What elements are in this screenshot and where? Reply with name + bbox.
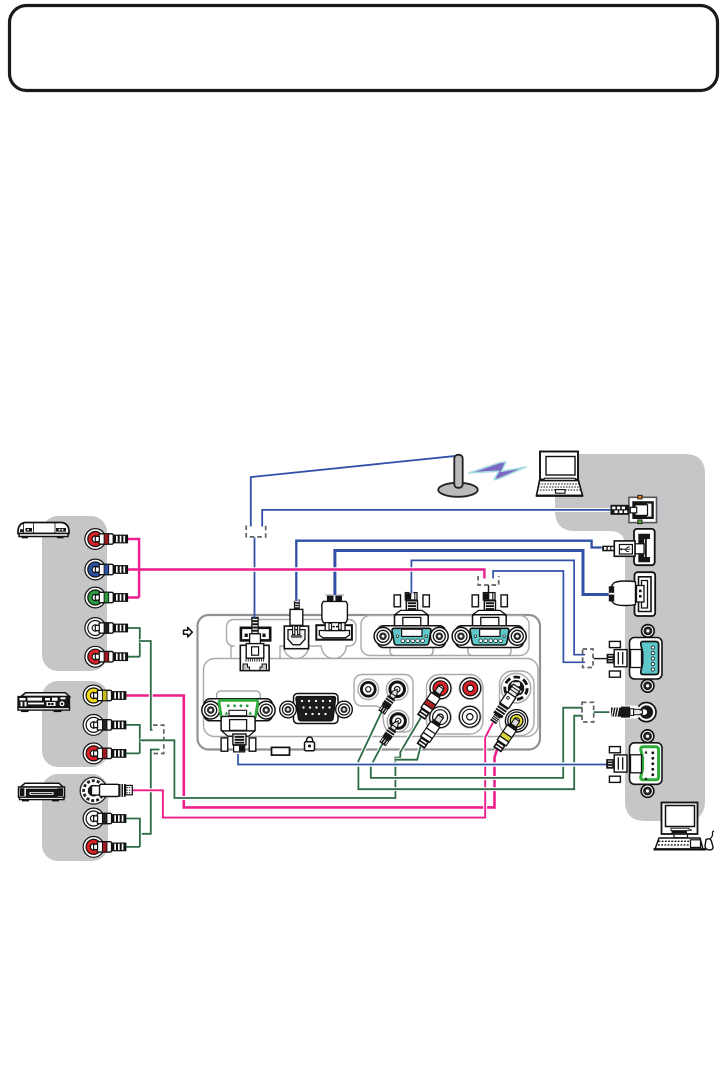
group1 plug Y	[95, 534, 128, 544]
right MONITOR cable connector (green d-sub)	[606, 730, 662, 797]
group1 plug L	[95, 623, 128, 633]
device video deck (group3)	[19, 783, 65, 801]
MONITOR OUT plug (below port)	[221, 716, 256, 751]
wire s-video cable pink	[131, 723, 493, 818]
group1 audio jack L (white)	[85, 618, 106, 639]
gray panel right column	[555, 454, 705, 821]
dashed box at right AUDIO plug	[582, 702, 594, 722]
group3 audio jack R (red)	[83, 837, 104, 858]
USB-B port	[284, 626, 308, 649]
wire audio box to plug green	[594, 711, 612, 713]
top instruction box	[10, 6, 718, 91]
AUDIO mini jack 3	[387, 710, 409, 732]
USB-B plug (cable above)	[290, 599, 303, 637]
AUDIO rca R2 red	[459, 677, 481, 699]
right COMPUTER cable connector (teal d-sub)	[607, 625, 662, 692]
AUDIO rca R1 red	[430, 677, 452, 699]
right USB connector	[634, 529, 655, 565]
group2 plug L	[94, 720, 127, 730]
VIDEO port (yellow rca)	[505, 710, 527, 732]
group3 audio jack L (white)	[83, 808, 104, 829]
device DVD player (group1)	[18, 523, 69, 539]
group1 plug Cb	[95, 564, 128, 574]
wire COMPUTER IN2 cable blue	[493, 571, 585, 662]
wire MONITOR OUT cable blue	[238, 754, 607, 765]
arrow marker left of panel	[184, 627, 193, 637]
dashed box at right COMPUTER connector	[583, 649, 593, 668]
AUDIO mini jack 2	[386, 679, 408, 701]
wire COMPUTER IN1 cable blue	[411, 560, 585, 654]
COMPUTER IN2 port with plug	[452, 593, 526, 656]
group1 plug R	[95, 652, 128, 662]
gray panel group3 (camcorder)	[42, 774, 108, 861]
wire group3 audio branch green	[140, 750, 160, 834]
wire group2 audio merge green	[127, 725, 140, 754]
device VCR (group2)	[18, 693, 70, 712]
wire USB cable blue	[296, 541, 602, 601]
wire choice box to LAN plug blue	[254, 538, 256, 619]
lower ports area outline	[204, 659, 539, 737]
group2 audio jack L (white)	[83, 715, 104, 736]
gray panel group2 (VCR)	[42, 681, 108, 767]
LAN plug (in port, cable above)	[246, 617, 264, 658]
group1 component jack Y (red)	[85, 529, 106, 550]
AUDIO rca W1 white	[429, 706, 451, 728]
mini jack group outline	[354, 675, 413, 733]
projector rear panel outline	[198, 615, 541, 750]
group2 plug video	[94, 690, 127, 700]
plug in VIDEO port	[493, 717, 522, 753]
wire stub to AUDIO-W1 green	[395, 747, 420, 760]
wire bracket to COMPUTER IN2 plug black	[488, 585, 490, 593]
wire group1 audio branch green	[140, 641, 153, 730]
wire component video cable pink	[128, 539, 485, 598]
group2 audio jack R (red)	[83, 743, 104, 764]
kensington lock icon	[305, 737, 315, 751]
plug in AUDIO mini jack3	[379, 719, 402, 747]
wireless adapter pole	[438, 455, 478, 497]
rca audio group outline	[427, 675, 484, 735]
dashed bracket at COMPUTER IN2 plug	[478, 576, 499, 585]
plug in AUDIO rca W1	[416, 713, 445, 749]
dashed choice box at LAN	[246, 526, 266, 537]
wire mini jack2 to right audio box green	[358, 712, 582, 789]
group2 plug R	[94, 748, 127, 758]
right HDMI connector	[635, 572, 656, 616]
right AUDIO port	[637, 703, 656, 722]
wire video cable (yellow->VIDEO) pink	[127, 696, 498, 808]
group1 component jack Cb (blue)	[85, 559, 106, 580]
right USB cable plug	[602, 541, 644, 556]
small label rect	[272, 747, 290, 755]
wire wireless adapter to LAN choice blue	[251, 456, 457, 527]
right AUDIO mini plug	[610, 706, 643, 719]
computer-in ports area outline	[361, 616, 529, 656]
gray panel group1 (component video device)	[42, 516, 107, 671]
plug in AUDIO rca R1	[416, 684, 445, 720]
wire mini jack3 to right audio box green	[371, 708, 583, 778]
wireless signal bolt	[469, 462, 526, 480]
wire group3 audio merge green	[127, 819, 140, 847]
S-VIDEO port	[501, 673, 531, 703]
wire LAN connector to choice box blue	[262, 510, 611, 527]
group3 plug R	[94, 842, 127, 852]
plug in S-VIDEO port	[489, 684, 522, 725]
wire group1 audio merge green	[128, 628, 140, 657]
group2 video jack (yellow)	[83, 685, 104, 706]
LAN port	[240, 628, 270, 671]
group3 s-video plug	[92, 784, 133, 797]
group1 component jack Cr (green)	[85, 587, 106, 608]
wire group2 audio to AUDIO-R1 green	[140, 718, 421, 799]
COMPUTER IN1 port with plug	[374, 593, 448, 656]
plug in AUDIO mini jack2	[378, 687, 401, 715]
group3 s-video jack	[80, 777, 107, 804]
HDMI port	[316, 625, 352, 640]
HDMI plug (cable above)	[322, 594, 348, 631]
top ports area outline	[227, 620, 357, 675]
group3 plug L	[94, 813, 127, 823]
device desktop computer	[654, 803, 715, 850]
dashed adapter path left	[153, 725, 164, 753]
AUDIO mini jack 1 (empty)	[358, 679, 379, 700]
MONITOR OUT port (green)	[202, 691, 275, 721]
group1 audio jack R (red)	[85, 646, 106, 667]
group1 plug Cr	[95, 592, 128, 602]
wire HDMI cable blue	[335, 551, 609, 596]
right HDMI cable plug	[609, 581, 644, 606]
right LAN cable plug	[611, 505, 630, 515]
right LAN coupler	[629, 495, 657, 523]
AUDIO rca W2 white	[459, 706, 481, 728]
CONTROL port (dark d-sub)	[280, 694, 353, 724]
video group outline	[500, 671, 535, 736]
wire right box to COMPUTER connector black	[594, 658, 607, 660]
device laptop	[536, 452, 583, 496]
